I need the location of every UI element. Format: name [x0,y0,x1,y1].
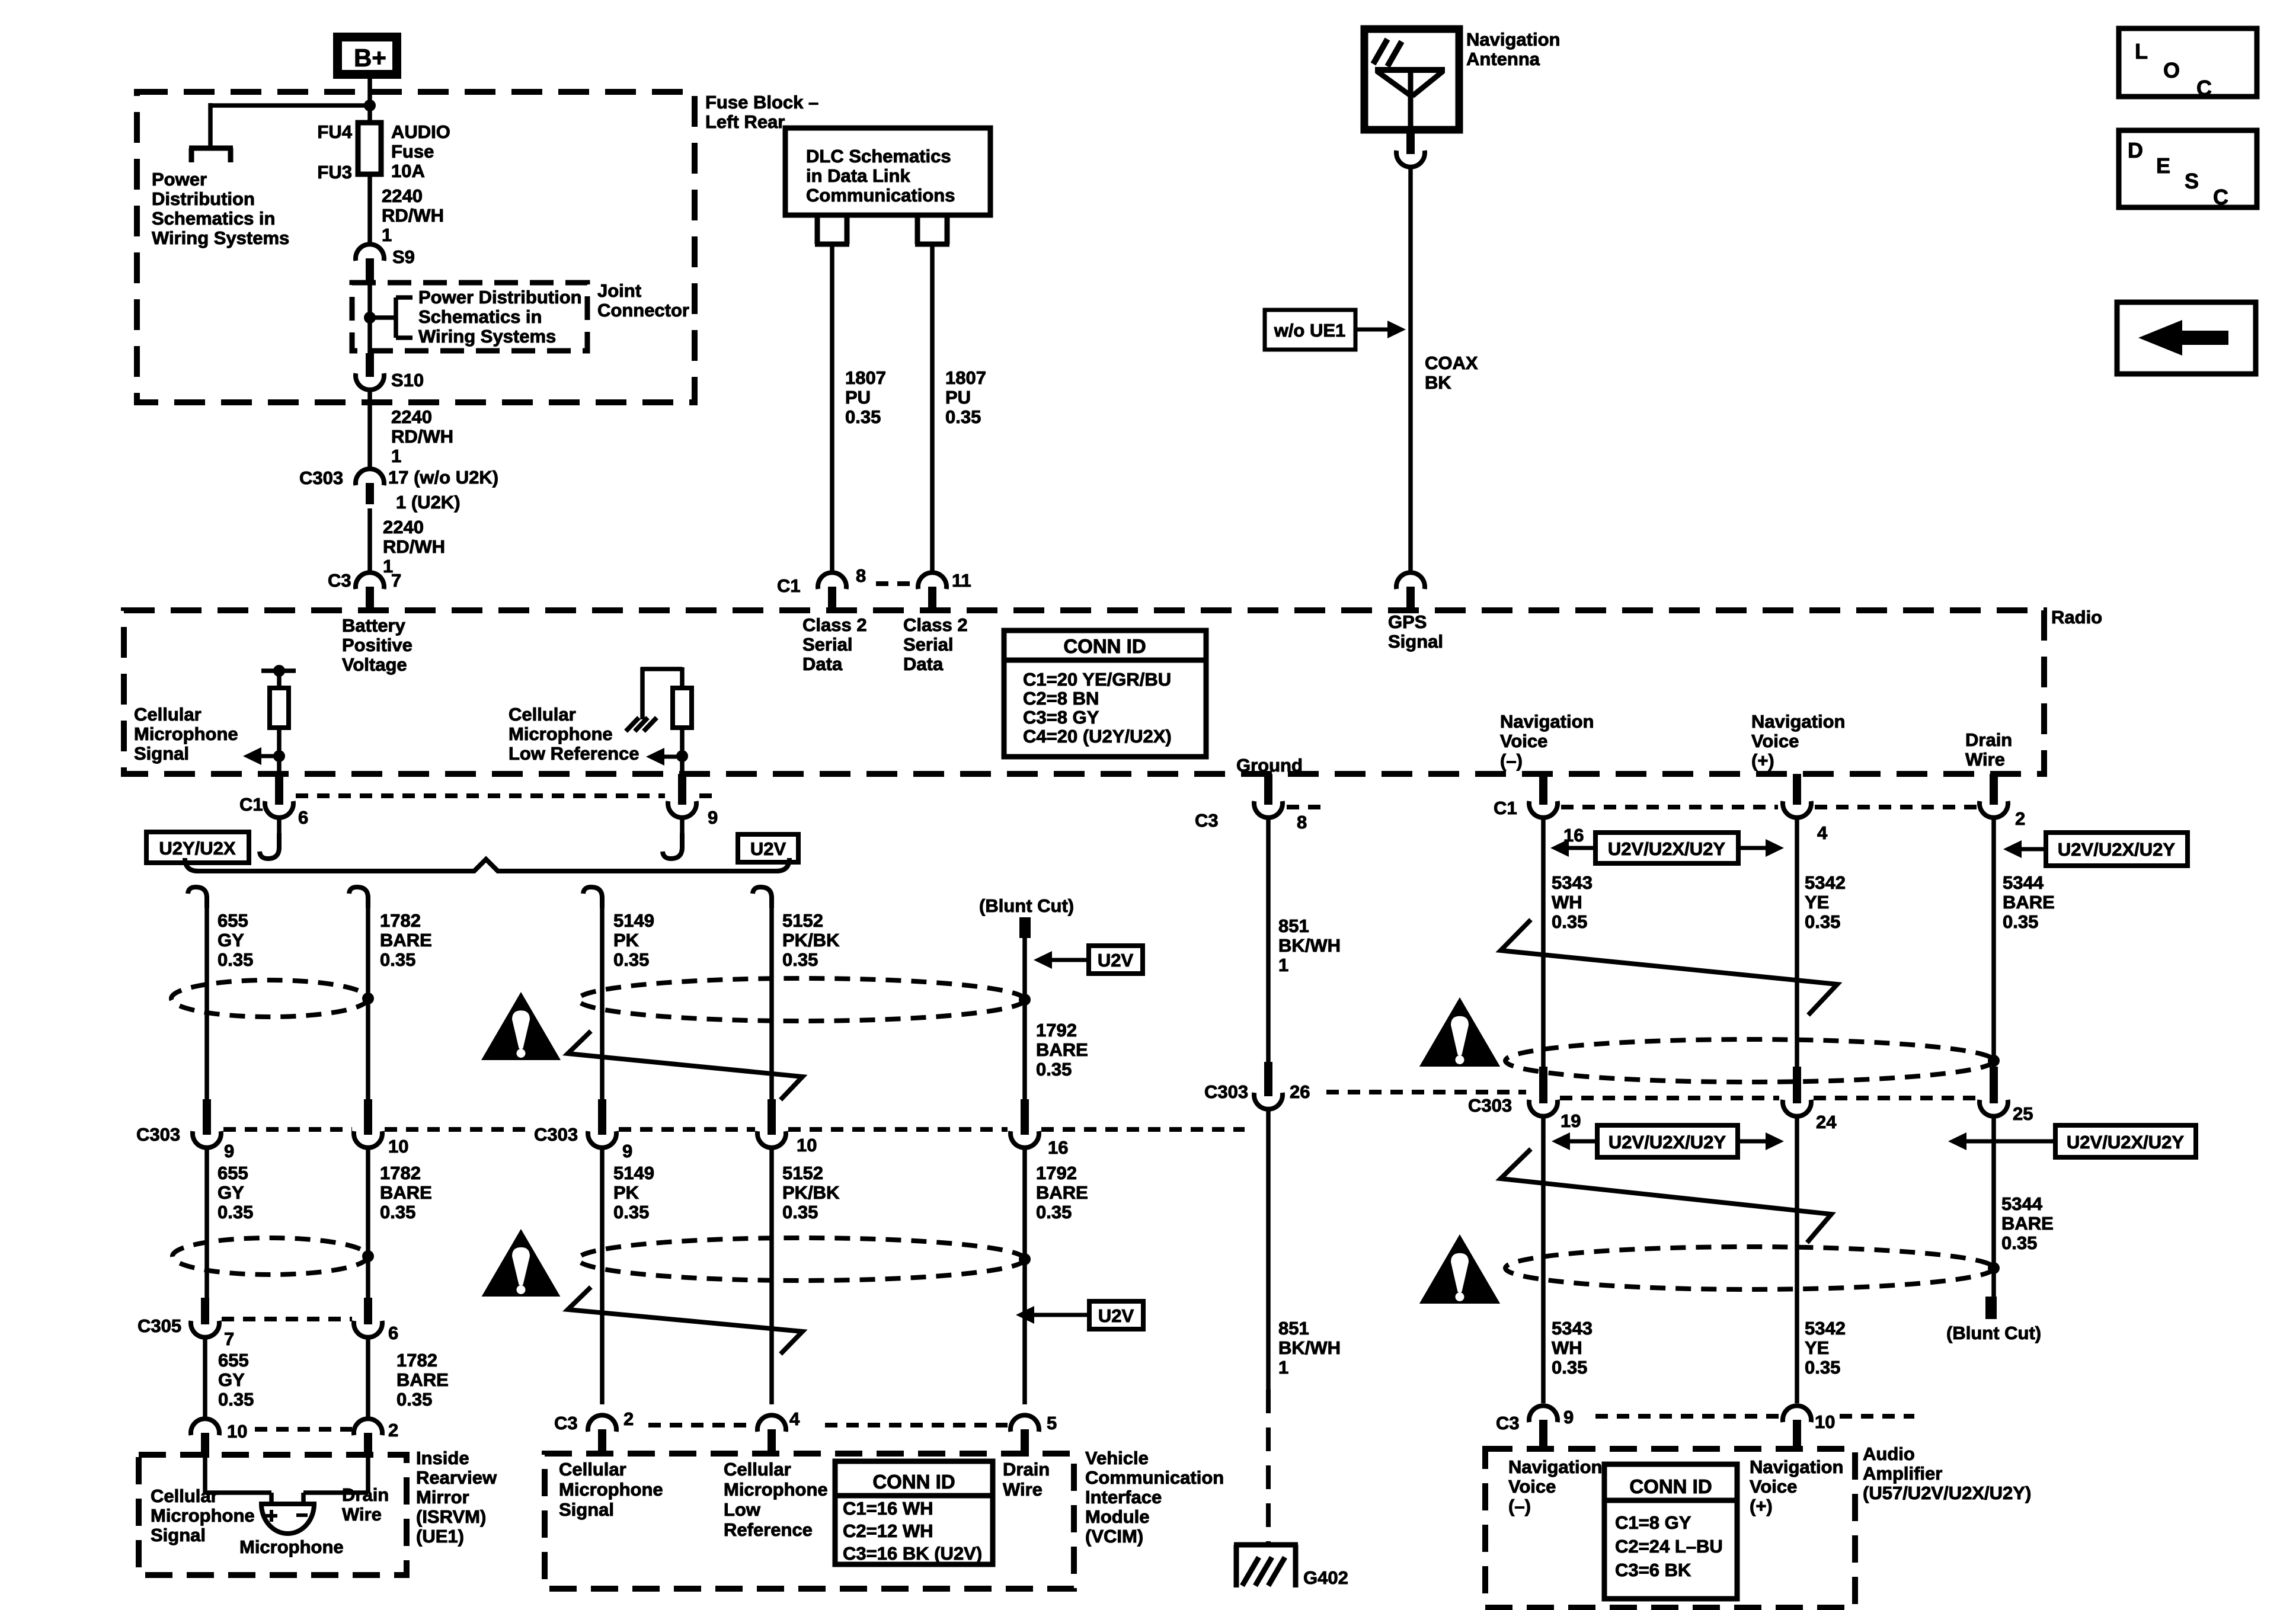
U2V pointer box 2 [1089,1301,1143,1329]
svg-text:Microphone: Microphone [724,1479,828,1500]
svg-text:5152: 5152 [782,1163,823,1183]
svg-text:C3: C3 [554,1413,578,1433]
svg-text:851: 851 [1278,916,1309,936]
connector C303 pin 16 (drain) [1021,1099,1029,1135]
microphone symbol [261,1504,314,1534]
svg-text:0.35: 0.35 [782,1202,818,1222]
wire 655 GY seg1 [204,905,209,1099]
wire fuse to S9 [367,174,372,244]
svg-text:Class 2: Class 2 [802,614,867,635]
dashed row ISRVM pins [255,1427,352,1432]
antenna symbol [1375,67,1445,73]
svg-text:1782: 1782 [380,910,421,931]
twisted pair ellipse mid row2 [578,1238,1025,1281]
svg-text:C1: C1 [239,794,263,815]
svg-text:0.35: 0.35 [613,949,649,970]
VCIM dashed box [545,1454,1074,1589]
svg-text:GY: GY [218,1182,244,1203]
connector C303 pin 25 [1990,1067,1998,1103]
arrow U2V 1 [1034,951,1052,969]
splice S9 [356,244,384,261]
svg-text:0.35: 0.35 [396,1389,432,1410]
wire 851 lower solid [1266,1109,1271,1390]
svg-text:851: 851 [1278,1318,1309,1339]
svg-text:Communications: Communications [806,185,955,206]
svg-text:C3=6 BK: C3=6 BK [1615,1560,1691,1580]
svg-text:Left Rear: Left Rear [705,111,785,132]
svg-text:S9: S9 [392,247,415,267]
wire 5342 YE seg1 [1795,818,1799,1067]
svg-text:Navigation: Navigation [1500,711,1594,732]
svg-text:Signal: Signal [559,1499,614,1520]
power symbol B+ box [333,33,401,79]
svg-text:AUDIO: AUDIO [391,121,450,142]
wire 851 dashed to ground [1266,1390,1271,1543]
svg-text:Low Reference: Low Reference [509,743,639,764]
arrow w/o UE1 to coax [1387,321,1406,338]
svg-text:U2V/U2X/U2Y: U2V/U2X/U2Y [1609,1132,1726,1153]
svg-text:U2V/U2X/U2Y: U2V/U2X/U2Y [2058,839,2175,860]
svg-text:Signal: Signal [151,1525,206,1545]
svg-text:8: 8 [856,565,866,586]
connector C303 pin 24 [1793,1067,1801,1103]
svg-text:BK: BK [1425,372,1451,393]
svg-text:Wiring Systems: Wiring Systems [418,326,556,347]
svg-text:2: 2 [623,1409,634,1429]
connector ISRVM pin 2 [354,1419,382,1435]
svg-text:Communication: Communication [1085,1467,1224,1488]
back arrow legend box [2117,302,2256,374]
warning triangle right row2 [1419,1234,1500,1304]
svg-text:655: 655 [218,910,248,931]
svg-text:C305: C305 [137,1315,181,1336]
svg-text:G402: G402 [1303,1567,1348,1588]
warning triangle left row1 [481,992,561,1060]
svg-text:CONN ID: CONN ID [1063,635,1146,657]
svg-text:2240: 2240 [382,185,423,206]
wire 5149 PK seg2 [600,1148,605,1404]
svg-text:Cellular: Cellular [559,1459,626,1480]
wire through joint connector [367,285,372,354]
svg-text:Cellular: Cellular [151,1486,218,1506]
resistor (cellular mic signal pullup) [261,668,296,673]
svg-text:0.35: 0.35 [380,949,415,970]
connector pin 11 [918,572,946,589]
svg-text:Wire: Wire [1965,749,2005,770]
svg-text:1792: 1792 [1036,1020,1077,1041]
navigation antenna box [1364,29,1459,130]
dashed row C303 nav [1560,1096,1779,1100]
hook wire 655 [188,887,207,908]
svg-text:Low: Low [724,1499,761,1520]
connector C3 pin 5 (VCIM) [1011,1415,1039,1432]
svg-text:2: 2 [388,1420,398,1441]
svg-text:C4=20 (U2Y/U2X): C4=20 (U2Y/U2X) [1023,726,1172,747]
svg-text:Rearview: Rearview [416,1467,497,1488]
radio CONN ID table [1004,630,1206,757]
connector C305 pin 6 [364,1298,372,1324]
svg-text:9: 9 [708,807,718,828]
connector C3 pin 8 (ground) [1264,774,1272,805]
svg-text:6: 6 [298,807,308,828]
svg-text:(Blunt Cut): (Blunt Cut) [1946,1323,2041,1343]
svg-text:1782: 1782 [380,1163,421,1183]
svg-text:5343: 5343 [1552,872,1593,893]
junction dot drain left row2 [362,1250,374,1262]
connector C3 pin 10 (amp) [1783,1406,1811,1422]
svg-text:Power Distribution: Power Distribution [418,287,582,308]
connector C1 pin 2 [1990,774,1998,805]
svg-text:WH: WH [1552,1337,1582,1358]
svg-text:PK: PK [613,930,639,950]
svg-text:B+: B+ [354,44,386,72]
wire 1807 left [830,244,834,572]
svg-text:(–): (–) [1508,1496,1531,1516]
blunt cut square (right) [1985,1297,1997,1319]
svg-text:Connector: Connector [597,300,689,321]
twisted pair ellipse mid row1 [578,978,1025,1021]
svg-text:Drain: Drain [1965,729,2012,750]
svg-text:CONN ID: CONN ID [1629,1475,1712,1497]
w/o UE1 box [1265,310,1355,350]
svg-text:PK: PK [613,1182,639,1203]
junction dot drain mid row1 [1019,994,1031,1006]
svg-text:7: 7 [391,570,401,591]
svg-text:0.35: 0.35 [945,406,981,427]
junction dot mic signal [273,750,285,762]
svg-text:C303: C303 [136,1124,180,1145]
twisted pair ellipse left row1 [171,980,368,1017]
connector C303 pin 17 [356,469,384,485]
U2V/U2X/U2Y pointer row1 right [2046,833,2188,866]
twisted pair ellipse right row2 [1505,1247,1994,1289]
svg-text:Cellular: Cellular [509,704,576,725]
svg-text:10: 10 [797,1135,817,1156]
svg-text:Antenna: Antenna [1466,49,1540,69]
svg-text:Fuse: Fuse [391,141,434,162]
svg-text:Signal: Signal [134,743,189,764]
svg-text:5149: 5149 [613,910,654,931]
junction dot drain mid row2 [1019,1253,1031,1265]
svg-text:L: L [2135,39,2148,63]
svg-text:Voice: Voice [1751,731,1799,751]
svg-text:C303: C303 [299,468,343,488]
junction dot drain right row2 [1988,1262,2000,1274]
svg-text:1: 1 [391,446,401,466]
svg-text:C: C [2196,76,2212,100]
U2V option box [738,834,798,862]
svg-text:Fuse Block –: Fuse Block – [705,92,818,113]
svg-text:0.35: 0.35 [2003,911,2038,932]
svg-text:Amplifier: Amplifier [1863,1463,1942,1484]
svg-text:0.35: 0.35 [218,1389,254,1410]
svg-text:25: 25 [2013,1103,2033,1124]
svg-text:Serial: Serial [802,634,852,655]
svg-text:FU4: FU4 [317,121,352,142]
svg-text:5: 5 [1047,1413,1057,1433]
svg-text:C3=16 BK (U2V): C3=16 BK (U2V) [843,1543,982,1564]
chassis ground hatches [626,718,639,731]
svg-text:Cellular: Cellular [724,1459,791,1480]
arrow right row2 [1766,1132,1784,1150]
svg-text:C2=8 BN: C2=8 BN [1023,688,1099,709]
svg-text:FU3: FU3 [317,162,352,183]
svg-text:Microphone: Microphone [509,724,613,744]
svg-text:26: 26 [1290,1081,1310,1102]
wire 655 GY seg2 [204,1148,209,1298]
svg-text:Navigation: Navigation [1508,1457,1602,1477]
svg-text:5149: 5149 [613,1163,654,1183]
svg-text:Audio: Audio [1863,1443,1915,1464]
svg-text:WH: WH [1552,892,1582,913]
svg-text:Module: Module [1085,1506,1150,1527]
wire 5342 YE seg2 [1795,1116,1799,1403]
junction dot mic low ref [676,750,688,762]
ISRVM wires to microphone [203,1458,207,1493]
wire 5344 BARE seg2 [1991,1116,1996,1297]
svg-text:YE: YE [1805,1337,1829,1358]
wire S10 to C303 [367,390,372,469]
svg-text:BARE: BARE [1036,1182,1088,1203]
connector C1 pin 16 [1539,774,1547,805]
svg-text:GPS: GPS [1388,612,1427,632]
callout zigzag right row2 [1501,1149,1831,1243]
svg-text:w/o UE1: w/o UE1 [1274,320,1346,341]
connector C303 pin 9 (mid) [598,1099,606,1135]
wire 1782 BARE seg1 [366,905,370,1099]
svg-text:0.35: 0.35 [1805,911,1840,932]
DESC legend box [2119,130,2257,207]
svg-text:0.35: 0.35 [1552,911,1587,932]
connector C1 pin 8 [818,572,846,589]
audio amplifier dashed box [1485,1449,1855,1608]
U2V pointer box 1 [1089,946,1143,974]
wire pin9 tail [680,818,685,834]
svg-text:Mirror: Mirror [416,1487,469,1507]
svg-text:RD/WH: RD/WH [391,426,453,447]
svg-text:Interface: Interface [1085,1487,1162,1507]
svg-text:BARE: BARE [396,1369,449,1390]
connector C303 pin 19 [1539,1067,1547,1103]
svg-text:1792: 1792 [1036,1163,1077,1183]
ground G402 symbol [1234,1542,1298,1548]
svg-text:Positive: Positive [342,635,412,655]
wire pin6 tail [277,818,282,834]
warning triangle left row2 [482,1229,561,1297]
svg-text:Voice: Voice [1500,731,1547,751]
svg-text:Signal: Signal [1388,631,1443,652]
callout zigzag right row1 [1501,920,1837,1015]
svg-text:BARE: BARE [380,1182,432,1203]
U2V/U2X/U2Y pointer row2 right [2055,1125,2196,1157]
svg-text:U2V: U2V [1098,1305,1134,1326]
svg-text:BARE: BARE [2001,1213,2054,1234]
U2V/U2X/U2Y pointer row2 [1597,1125,1738,1157]
connector GPS at radio [1396,572,1425,589]
wire 5343 WH seg2 [1541,1116,1546,1403]
joint connector dashed box [352,283,587,351]
splice S10 [366,353,374,377]
joint connector bracket [370,315,396,320]
svg-text:1 (U2K): 1 (U2K) [396,492,461,513]
svg-text:C303: C303 [1204,1081,1248,1102]
svg-text:Microphone: Microphone [239,1537,344,1557]
wire 5343 WH seg1 [1541,818,1546,1067]
svg-text:0.35: 0.35 [845,406,881,427]
svg-text:BK/WH: BK/WH [1278,1337,1341,1358]
wire C303 to C3 [367,508,372,572]
wire 1782 BARE seg3 [366,1337,370,1419]
svg-text:RD/WH: RD/WH [383,536,445,557]
svg-text:655: 655 [218,1350,249,1371]
svg-text:O: O [2163,58,2180,82]
twisted pair ellipse left row2 [172,1238,368,1275]
arrow left row2 [1552,1132,1570,1150]
ISRVM dashed box [139,1455,407,1575]
svg-text:6: 6 [388,1323,398,1343]
connector C3 pin 4 (VCIM) [757,1415,786,1432]
svg-text:10: 10 [1815,1411,1835,1432]
svg-text:Class 2: Class 2 [903,614,968,635]
svg-text:Navigation: Navigation [1466,29,1560,50]
warning triangle right row1 [1419,997,1500,1067]
svg-text:GY: GY [218,1369,245,1390]
connector C3 pin 9 (amp) [1529,1406,1558,1422]
svg-text:0.35: 0.35 [782,949,818,970]
svg-text:Battery: Battery [342,615,406,636]
DLC pin bracket left [815,215,820,244]
dashed row VCIM pins [648,1423,755,1427]
svg-text:Voice: Voice [1750,1476,1797,1497]
svg-text:0.35: 0.35 [1036,1059,1072,1080]
svg-text:Microphone: Microphone [559,1479,663,1500]
svg-text:Power: Power [152,169,207,190]
svg-text:U2V: U2V [1098,950,1134,971]
svg-text:2: 2 [2015,808,2025,829]
svg-text:1807: 1807 [845,367,886,388]
wire B+ to fuse [367,79,372,123]
svg-text:U2V/U2X/U2Y: U2V/U2X/U2Y [2067,1132,2184,1153]
svg-text:7: 7 [224,1329,234,1349]
connector C303 pin 10 [364,1099,372,1135]
svg-text:4: 4 [1817,822,1828,843]
hook wire 5149 [583,887,602,908]
connector C3 pin 2 (VCIM) [588,1415,616,1432]
wire 851 upper [1266,818,1271,1062]
U2V/U2X/U2Y pointer row1 [1595,833,1738,863]
svg-text:U2V: U2V [750,838,786,859]
wire branch to power distribution [210,103,370,108]
drain wire 1792 upper [1022,938,1027,1099]
svg-text:C303: C303 [1468,1095,1512,1116]
svg-text:COAX: COAX [1425,353,1478,373]
svg-text:19: 19 [1560,1110,1581,1131]
svg-text:0.35: 0.35 [1805,1357,1840,1378]
svg-text:CONN ID: CONN ID [872,1471,955,1493]
arrow row2 right [1948,1132,1966,1150]
junction dot drain right row1 [1988,1055,2000,1067]
svg-text:5344: 5344 [2001,1193,2043,1214]
dashed row C1 nav [1561,805,1778,809]
DLC pin bracket right [915,215,920,244]
arrow mic signal [243,747,261,765]
svg-text:11: 11 [952,570,971,591]
connector C303 pin 9 [203,1099,211,1135]
svg-text:Cellular: Cellular [134,704,202,725]
low reference loop to chassis ground [680,667,685,688]
svg-text:1782: 1782 [396,1350,437,1371]
svg-text:C1=8 GY: C1=8 GY [1615,1512,1691,1533]
dashed row amp pins [1595,1414,1779,1419]
arrow left row1 [1550,839,1569,857]
harness brace [185,858,789,871]
svg-text:8: 8 [1297,812,1307,833]
connector C303 pin 10 (mid) [768,1099,776,1135]
svg-text:(U57/U2V/U2X/U2Y): (U57/U2V/U2X/U2Y) [1863,1483,2031,1503]
svg-text:0.35: 0.35 [218,949,253,970]
svg-text:Reference: Reference [724,1519,813,1540]
svg-text:C1: C1 [777,575,801,596]
svg-text:(UE1): (UE1) [416,1526,464,1547]
svg-text:BARE: BARE [1036,1039,1088,1060]
svg-text:10: 10 [227,1421,247,1442]
svg-text:9: 9 [1563,1407,1574,1427]
svg-text:1: 1 [1278,1357,1288,1378]
svg-text:Data: Data [903,654,944,674]
svg-text:Voltage: Voltage [342,654,407,675]
svg-text:in Data Link: in Data Link [806,165,910,186]
svg-text:Schematics in: Schematics in [418,306,542,327]
svg-text:(–): (–) [1500,750,1523,771]
svg-text:Schematics in: Schematics in [152,208,275,229]
junction dot drain left row1 [362,993,374,1004]
drain wire 1792 lower [1022,1148,1027,1404]
svg-text:U2Y/U2X: U2Y/U2X [159,838,236,859]
svg-text:Microphone: Microphone [134,724,238,744]
wire 5152 PK/BK seg2 [769,1148,774,1404]
svg-text:1: 1 [1278,955,1288,975]
svg-text:5152: 5152 [782,910,823,931]
connector ISRVM pin 10 [191,1419,219,1435]
svg-text:Drain: Drain [1003,1459,1050,1480]
hook wire 5152 [753,887,772,908]
svg-text:S: S [2185,169,2199,193]
svg-text:0.35: 0.35 [1036,1202,1072,1222]
svg-text:Microphone: Microphone [151,1505,255,1526]
svg-text:(ISRVM): (ISRVM) [416,1506,486,1527]
svg-text:17 (w/o U2K): 17 (w/o U2K) [388,467,498,488]
svg-text:1: 1 [382,225,392,245]
junction dot at resistor top [273,665,285,677]
dashed row C305 [222,1317,352,1321]
svg-text:0.35: 0.35 [380,1202,415,1222]
curl pin6 tail [260,833,279,859]
svg-text:Voice: Voice [1508,1476,1556,1497]
svg-text:10: 10 [388,1136,408,1157]
wire 5152 PK/BK seg1 [769,905,774,1099]
svg-text:10A: 10A [391,161,425,181]
svg-text:PK/BK: PK/BK [782,1182,840,1203]
svg-text:PU: PU [845,387,871,408]
svg-text:2240: 2240 [391,406,432,427]
svg-text:9: 9 [224,1141,234,1161]
svg-text:D: D [2128,138,2143,162]
svg-text:BARE: BARE [380,930,432,950]
svg-text:C3: C3 [328,570,351,591]
blunt cut square (mid) [1019,917,1031,938]
svg-text:C3: C3 [1195,810,1219,831]
wire 5149 PK seg1 [600,905,605,1099]
